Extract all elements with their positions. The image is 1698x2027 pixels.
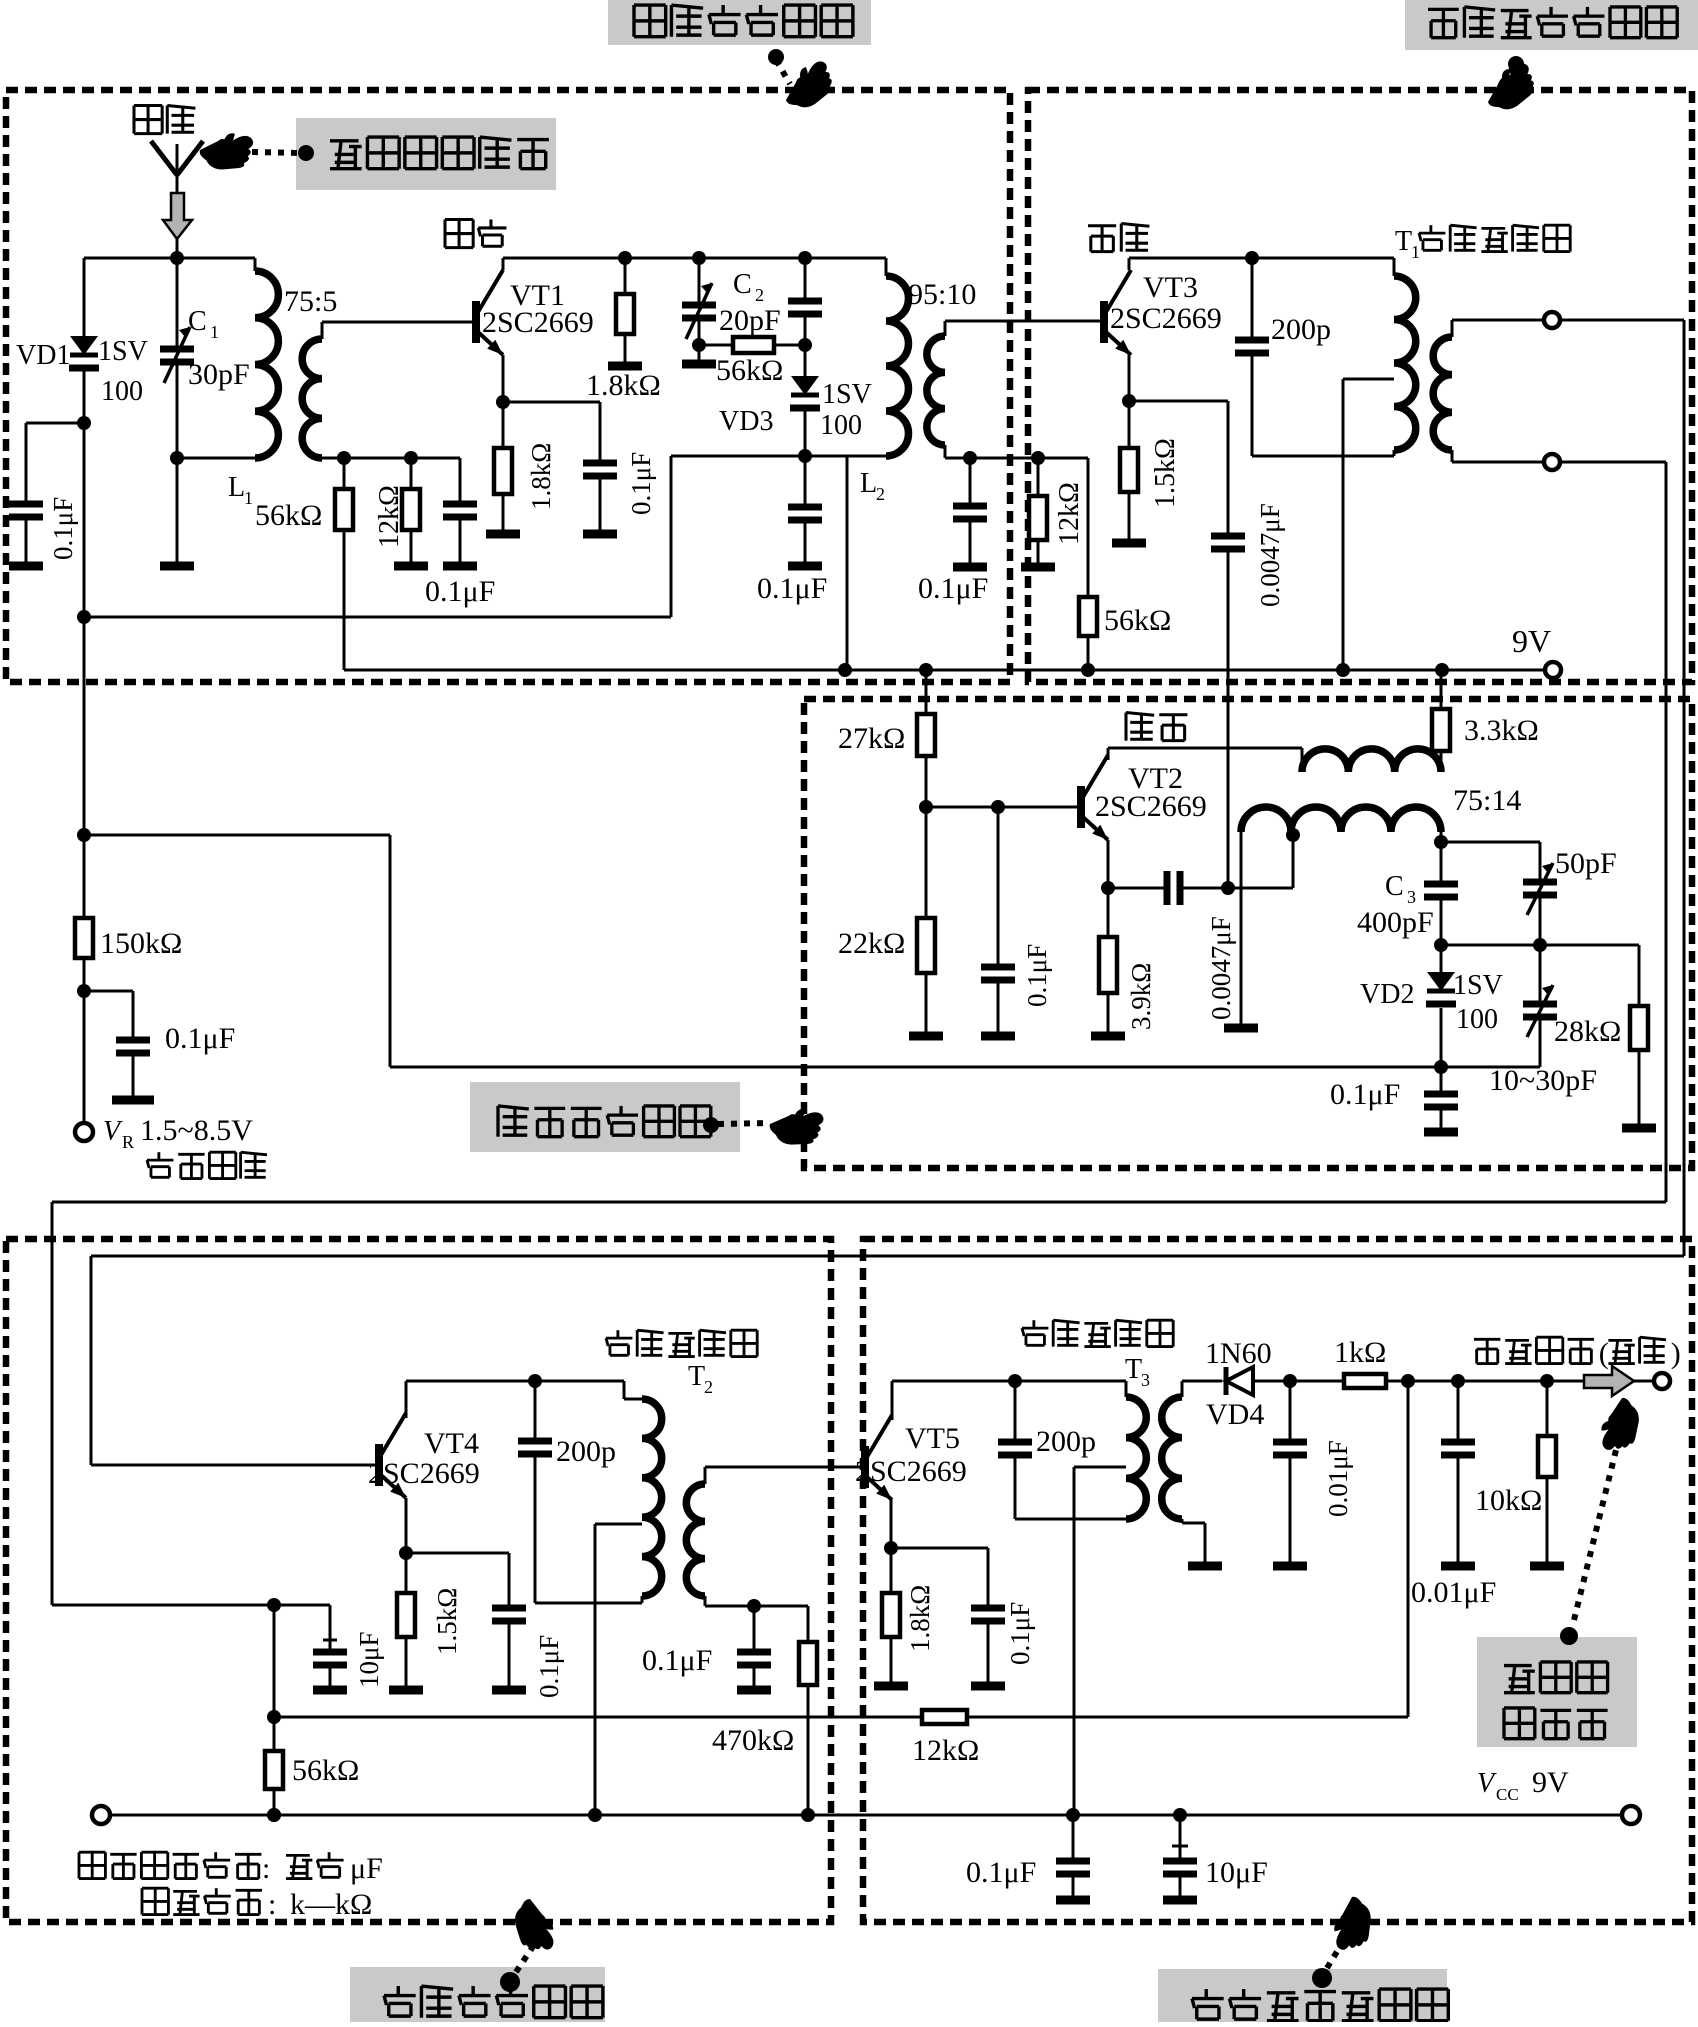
svg-text:μF: μF	[350, 1852, 383, 1885]
svg-text:56kΩ: 56kΩ	[716, 354, 783, 387]
svg-text:1SV: 1SV	[1453, 970, 1503, 1001]
svg-text:0.1μF: 0.1μF	[918, 572, 988, 605]
svg-text:2SC2669: 2SC2669	[1110, 302, 1222, 335]
svg-text:0.1μF: 0.1μF	[48, 497, 78, 560]
svg-text:1.5kΩ: 1.5kΩ	[1150, 438, 1181, 508]
svg-text:2: 2	[704, 1377, 713, 1397]
svg-text:V: V	[103, 1116, 123, 1147]
svg-text:L: L	[228, 472, 245, 503]
svg-text:0.1μF: 0.1μF	[966, 1856, 1036, 1889]
svg-text:1.8kΩ: 1.8kΩ	[526, 443, 556, 510]
svg-text:1N60: 1N60	[1205, 1337, 1272, 1370]
svg-text:9V: 9V	[1532, 1766, 1569, 1799]
svg-text:(: (	[1599, 1337, 1609, 1370]
svg-text:1.8kΩ: 1.8kΩ	[905, 1585, 935, 1652]
svg-text:100: 100	[1456, 1004, 1498, 1035]
svg-text:22kΩ: 22kΩ	[838, 927, 905, 960]
svg-text:VD1: VD1	[16, 340, 70, 371]
svg-text:VT4: VT4	[424, 1427, 479, 1460]
svg-text:150kΩ: 150kΩ	[100, 927, 182, 960]
svg-text:50pF: 50pF	[1555, 847, 1617, 880]
svg-text:0.01μF: 0.01μF	[1411, 1576, 1496, 1609]
svg-text:R: R	[122, 1132, 134, 1152]
svg-text:VT5: VT5	[905, 1422, 960, 1455]
svg-text:9V: 9V	[1512, 623, 1551, 659]
svg-text:C: C	[1385, 871, 1404, 902]
svg-text:1.5~8.5V: 1.5~8.5V	[140, 1114, 253, 1147]
svg-text:VD4: VD4	[1206, 1398, 1264, 1431]
svg-text:75:14: 75:14	[1453, 784, 1521, 817]
svg-text:2SC2669: 2SC2669	[482, 306, 594, 339]
svg-text:0.1μF: 0.1μF	[757, 572, 827, 605]
svg-text:470kΩ: 470kΩ	[712, 1724, 794, 1757]
svg-text:10μF: 10μF	[354, 1632, 384, 1689]
svg-text:): )	[1671, 1337, 1681, 1370]
svg-text:0.0047μF: 0.0047μF	[1255, 503, 1285, 607]
svg-text:1kΩ: 1kΩ	[1334, 1336, 1386, 1369]
svg-text:CC: CC	[1496, 1785, 1519, 1804]
svg-text:1SV: 1SV	[822, 379, 872, 410]
svg-text:T: T	[1125, 1354, 1142, 1385]
svg-text:V: V	[1477, 1768, 1497, 1799]
svg-text:2SC2669: 2SC2669	[855, 1455, 967, 1488]
svg-text:3: 3	[1407, 887, 1416, 907]
svg-text:1.8kΩ: 1.8kΩ	[586, 369, 661, 402]
svg-text:56kΩ: 56kΩ	[292, 1754, 359, 1787]
svg-text:30pF: 30pF	[188, 358, 250, 391]
svg-text:95:10: 95:10	[908, 278, 976, 311]
svg-text:0.1μF: 0.1μF	[1022, 944, 1052, 1007]
svg-text:VD2: VD2	[1360, 979, 1414, 1010]
svg-text:28kΩ: 28kΩ	[1554, 1015, 1621, 1048]
svg-text:1: 1	[1411, 242, 1420, 262]
svg-text:2SC2669: 2SC2669	[368, 1457, 480, 1490]
svg-text:0.01μF: 0.01μF	[1323, 1440, 1353, 1517]
svg-text:1: 1	[244, 488, 253, 508]
svg-text:T: T	[688, 1361, 705, 1392]
svg-text:3.3kΩ: 3.3kΩ	[1464, 714, 1539, 747]
svg-text:0.1μF: 0.1μF	[642, 1644, 712, 1677]
svg-text:0.1μF: 0.1μF	[425, 575, 495, 608]
svg-text:56kΩ: 56kΩ	[1104, 604, 1171, 637]
svg-text:T: T	[1395, 226, 1412, 257]
svg-text:10kΩ: 10kΩ	[1475, 1484, 1542, 1517]
svg-text:10μF: 10μF	[1205, 1856, 1268, 1889]
svg-text:2: 2	[755, 285, 764, 305]
svg-text::: :	[268, 1888, 276, 1921]
svg-text:400pF: 400pF	[1357, 906, 1434, 939]
svg-text:12kΩ: 12kΩ	[1054, 482, 1085, 545]
svg-text:200p: 200p	[556, 1435, 616, 1468]
svg-text:200p: 200p	[1036, 1425, 1096, 1458]
svg-text:C: C	[733, 269, 752, 300]
svg-text:0.1μF: 0.1μF	[165, 1022, 235, 1055]
svg-text:10~30pF: 10~30pF	[1489, 1064, 1597, 1097]
svg-text:1SV: 1SV	[98, 336, 148, 367]
svg-text:100: 100	[101, 376, 143, 407]
svg-text:12kΩ: 12kΩ	[374, 485, 405, 548]
svg-text:3: 3	[1141, 1370, 1150, 1390]
svg-text:27kΩ: 27kΩ	[838, 722, 905, 755]
svg-text:3.9kΩ: 3.9kΩ	[1126, 963, 1156, 1030]
svg-text:56kΩ: 56kΩ	[255, 499, 322, 532]
svg-text:1: 1	[210, 322, 219, 342]
svg-text:200p: 200p	[1271, 313, 1331, 346]
svg-text:12kΩ: 12kΩ	[912, 1734, 979, 1767]
svg-text:C: C	[188, 306, 207, 337]
svg-text::: :	[262, 1852, 270, 1885]
svg-text:VD3: VD3	[719, 406, 773, 437]
svg-text:k—kΩ: k—kΩ	[290, 1888, 372, 1921]
svg-text:0.1μF: 0.1μF	[1330, 1078, 1400, 1111]
svg-text:L: L	[860, 468, 877, 499]
svg-text:20pF: 20pF	[719, 304, 781, 337]
svg-text:0.0047μF: 0.0047μF	[1206, 916, 1236, 1020]
svg-text:2SC2669: 2SC2669	[1095, 790, 1207, 823]
svg-text:VT3: VT3	[1143, 271, 1198, 304]
svg-text:0.1μF: 0.1μF	[534, 1635, 564, 1698]
svg-text:1.5kΩ: 1.5kΩ	[432, 1588, 462, 1655]
svg-text:2: 2	[876, 484, 885, 504]
svg-text:0.1μF: 0.1μF	[626, 452, 656, 515]
svg-text:75:5: 75:5	[284, 285, 337, 318]
svg-text:0.1μF: 0.1μF	[1005, 1602, 1035, 1665]
svg-text:100: 100	[820, 410, 862, 441]
